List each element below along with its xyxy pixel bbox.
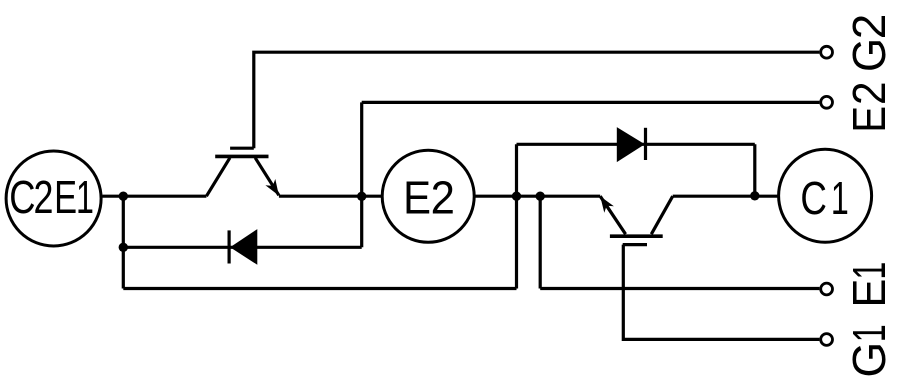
svg-text:C: C [9,171,35,223]
svg-text:E: E [403,173,431,224]
svg-text:2: 2 [34,172,54,223]
svg-text:1: 1 [844,324,895,342]
svg-text:G: G [843,38,895,72]
svg-text:E: E [844,106,895,133]
svg-text:1: 1 [76,172,94,223]
svg-text:2: 2 [431,171,455,223]
svg-text:2: 2 [843,14,895,40]
svg-text:E: E [54,171,77,223]
svg-text:1: 1 [831,173,849,224]
svg-text:2: 2 [844,82,895,106]
svg-text:G: G [843,342,895,378]
svg-text:1: 1 [844,262,895,280]
svg-text:E: E [845,279,895,308]
svg-text:C: C [800,172,827,224]
